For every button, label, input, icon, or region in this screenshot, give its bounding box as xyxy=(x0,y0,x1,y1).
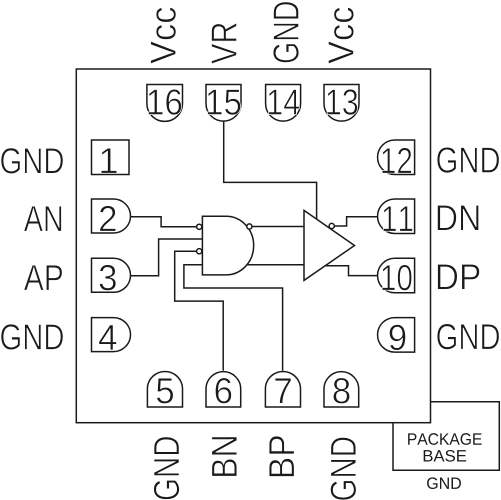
label AP pin3 xyxy=(24,265,62,290)
wire U1 output to U2 input xyxy=(252,226,304,228)
label DN pin11 xyxy=(437,205,478,230)
pin 1 xyxy=(92,140,130,175)
label PACKAGE xyxy=(408,433,482,445)
pin 12 number xyxy=(382,148,411,173)
label Vcc pin13 xyxy=(328,7,353,63)
pin 15 number xyxy=(208,89,241,114)
pin 12 xyxy=(378,140,415,175)
pin 9 xyxy=(378,318,415,353)
pin 7 xyxy=(265,371,300,407)
pin 1 number xyxy=(101,148,117,173)
pin 10 number xyxy=(382,265,412,291)
pin 7 number xyxy=(275,378,291,403)
label GND pin8 xyxy=(330,437,356,500)
pin 4 number xyxy=(99,325,117,350)
pin 14 xyxy=(266,85,301,122)
buffer U2 (triangle) xyxy=(304,210,355,280)
pin 2 number xyxy=(100,206,116,231)
wire pin7 to U1 input D and U2 lower input xyxy=(184,265,304,371)
label GND pin4 xyxy=(1,324,63,350)
pin 9 number xyxy=(389,325,405,351)
label VR pin15 xyxy=(211,23,236,64)
pin 3 number xyxy=(99,265,116,291)
pin 14 number xyxy=(269,89,300,114)
label GND pin5 xyxy=(154,437,180,500)
pin 6 xyxy=(206,372,241,407)
label BP pin7 xyxy=(269,436,294,476)
pin 2 xyxy=(92,199,131,233)
pin 13 xyxy=(324,85,359,122)
wire pin6 to U1 input C xyxy=(175,251,224,370)
package outline xyxy=(76,69,430,423)
package base pad xyxy=(393,402,499,471)
wire pin2 to U1 input A xyxy=(131,217,197,227)
label GND pin9 xyxy=(437,324,499,350)
label GND pin1 xyxy=(1,148,63,174)
bubble U1 input C xyxy=(197,249,202,254)
bubble U2 output xyxy=(329,223,334,228)
gate U1 (AND body) xyxy=(202,216,253,275)
label BN pin6 xyxy=(212,437,237,476)
pin 11 number xyxy=(383,206,412,231)
pin 13 number xyxy=(327,89,357,115)
pin 15 xyxy=(206,85,241,122)
wire U2 output to pin10 xyxy=(326,266,378,276)
pin 8 xyxy=(324,372,359,407)
wire U2 inverted output to pin11 xyxy=(334,217,378,226)
pin 3 xyxy=(92,258,131,292)
pin 11 xyxy=(378,199,415,234)
pin 10 xyxy=(378,258,415,293)
label DP pin10 xyxy=(438,264,480,289)
label GND pin12 xyxy=(437,147,499,173)
label GND pin14 xyxy=(273,2,299,63)
bubble U1 input A xyxy=(197,224,202,229)
label BASE xyxy=(424,450,467,462)
label Vcc pin16 xyxy=(151,7,176,63)
wire pin3 to U1 input B xyxy=(131,239,203,276)
pin 8 number xyxy=(333,378,349,404)
pin 5 xyxy=(147,371,182,407)
pin 4 xyxy=(92,318,131,352)
label GND package base xyxy=(427,477,461,489)
label AN pin2 xyxy=(24,206,62,231)
pin 16 number xyxy=(148,89,181,115)
pin 16 xyxy=(147,85,183,122)
pin 6 number xyxy=(215,378,231,404)
bubble U1 output xyxy=(247,224,252,229)
pin 5 number xyxy=(157,378,174,403)
wire pin15 to U2 top xyxy=(224,121,317,219)
